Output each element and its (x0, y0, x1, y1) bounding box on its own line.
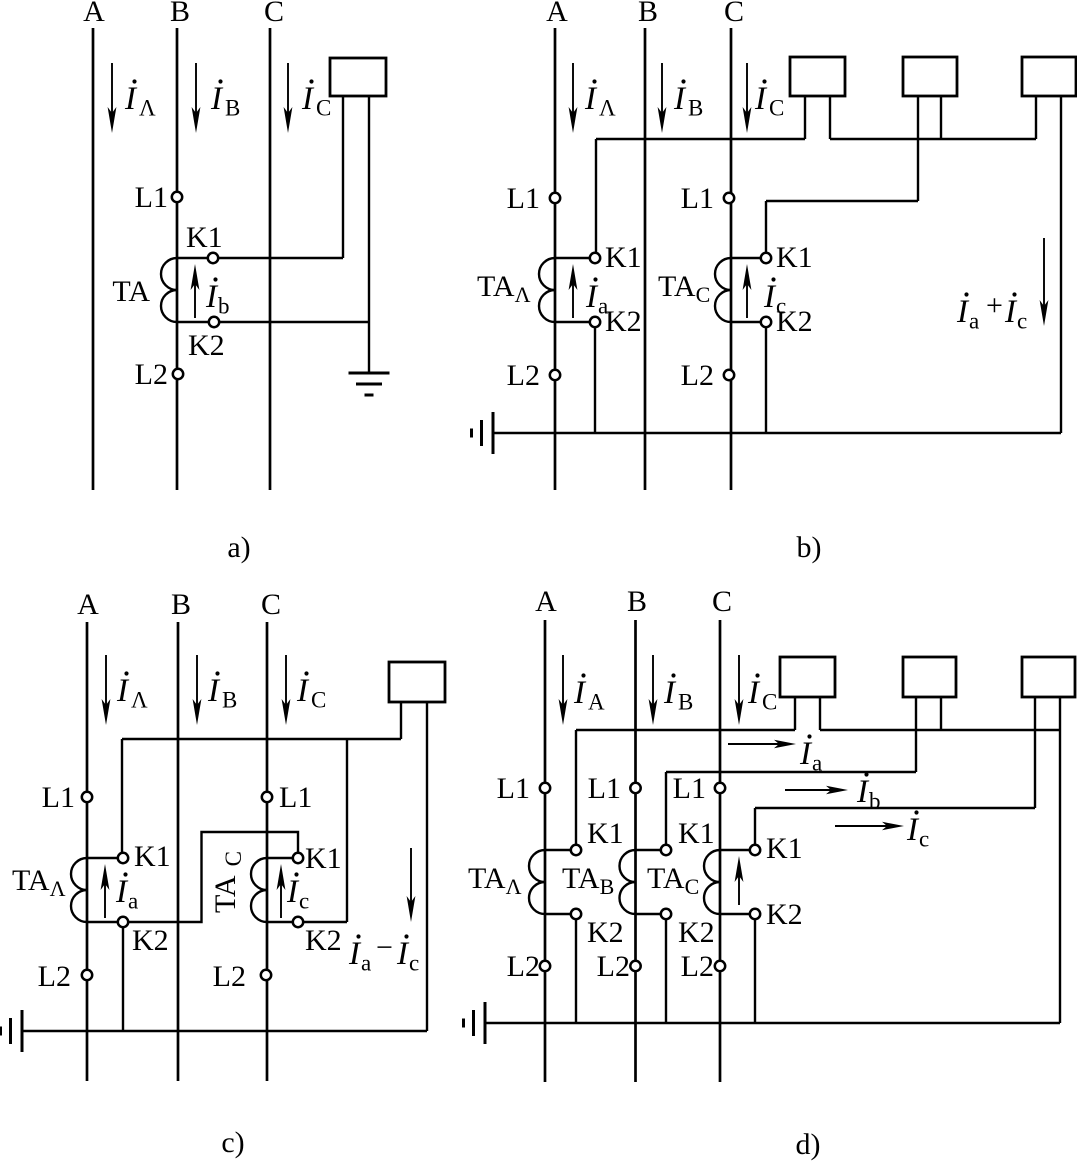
terminal K1A (b) (590, 253, 600, 263)
wire box1 left leg (d) (794, 697, 796, 730)
wire K2 to box right leg (a) (219, 321, 370, 323)
transformer TA_C winding (c) (251, 858, 267, 922)
terminal K1C (b) (761, 253, 771, 263)
svg-text:I: I (584, 81, 598, 117)
terminal K2A (b) (590, 317, 600, 327)
terminal K2C (b) (761, 317, 771, 327)
tick K2A (c) (87, 921, 119, 923)
svg-text:I: I (205, 279, 219, 315)
wire box3 right leg down to bus (b) (1060, 96, 1062, 433)
svg-text:Λ: Λ (131, 688, 148, 713)
svg-text:A: A (83, 0, 105, 28)
ground (b) (492, 412, 495, 454)
transformer TA_A winding (b) (539, 258, 555, 322)
terminal L2A (b) (550, 370, 560, 380)
branch arrow Ic (d) (835, 825, 899, 827)
svg-text:I: I (573, 675, 587, 711)
svg-text:L1: L1 (588, 772, 621, 805)
svg-text:K1: K1 (134, 840, 171, 873)
phase line C (c) (266, 622, 269, 1081)
secondary arrow Ic (c) (280, 870, 282, 918)
current arrow IA (a) (111, 63, 113, 127)
wire box3 right leg to bus (d) (1059, 697, 1061, 1023)
terminal L2C (b) (724, 370, 734, 380)
svg-text:I: I (116, 673, 130, 709)
terminal K1C (d) (750, 845, 760, 855)
terminal L2A (c) (82, 970, 92, 980)
svg-text:L1: L1 (673, 772, 706, 805)
ground (c) (21, 1010, 24, 1052)
terminal L1B (d) (630, 783, 640, 793)
svg-text:B: B (638, 0, 658, 28)
secondary arrow Ic (b) (746, 270, 748, 318)
svg-text:K1: K1 (605, 241, 642, 274)
terminal K1A (d) (571, 845, 581, 855)
tick K1B (d) (636, 849, 662, 851)
wire Ib horizontal (d) (666, 771, 916, 773)
wire K2C riser to bus (d) (754, 919, 756, 1024)
svg-text:L2: L2 (681, 359, 714, 392)
svg-text:L2: L2 (507, 950, 540, 983)
svg-text:K2: K2 (678, 916, 715, 949)
terminal L1A (d) (540, 783, 550, 793)
relay box 1 (b) (790, 57, 845, 96)
svg-text:C: C (261, 588, 281, 621)
secondary arrow Ia (b) (572, 270, 574, 318)
svg-text:C: C (762, 690, 777, 715)
wire K2A to ground bus (c) (122, 927, 124, 1032)
svg-text:A: A (77, 588, 99, 621)
current arrow IA (c) (105, 655, 107, 719)
transformer TA_C winding (b) (715, 258, 731, 322)
tick K2A (d) (545, 913, 572, 915)
phase line A (d) (544, 620, 547, 1082)
svg-text:Λ: Λ (139, 96, 156, 121)
svg-text:L2: L2 (507, 359, 540, 392)
svg-text:c: c (299, 889, 309, 914)
svg-text:K2: K2 (605, 305, 642, 338)
svg-text:A: A (588, 690, 605, 715)
wire horizontal K1A net (c) (122, 738, 401, 740)
current arrow IC (a) (287, 63, 289, 127)
svg-text:I: I (124, 81, 138, 117)
relay box 2 (d) (903, 657, 956, 697)
terminal K2B (d) (661, 909, 671, 919)
wire Ic horizontal (d) (755, 807, 1035, 809)
ground bus (c) (22, 1030, 427, 1032)
svg-text:c: c (776, 294, 786, 319)
svg-text:K1: K1 (766, 832, 803, 865)
wire box right leg down to bus (c) (426, 702, 428, 1031)
terminal L2A (d) (540, 961, 550, 971)
wire K2C riser to bus (b) (765, 327, 767, 434)
wire box2 left leg (b) (917, 96, 919, 201)
transformer TA_B winding (d) (620, 850, 636, 914)
phase line C (d) (719, 620, 722, 1082)
svg-text:I: I (585, 279, 599, 315)
tick K2C (b) (731, 321, 762, 323)
tick K1C (b) (731, 257, 762, 259)
svg-text:K2: K2 (132, 924, 169, 957)
svg-text:a: a (598, 294, 608, 319)
wire K1 to box (a) (218, 257, 344, 259)
svg-text:C: C (769, 96, 784, 121)
svg-text:B: B (171, 588, 191, 621)
terminal K2 (a) (209, 317, 219, 327)
terminal K1C (c) (293, 853, 303, 863)
terminal L1C (b) (724, 193, 734, 203)
svg-text:I: I (210, 81, 224, 117)
svg-text:C: C (316, 96, 331, 121)
current arrow IB (a) (195, 63, 197, 127)
wire K2A riser to bus (d) (575, 919, 577, 1024)
tick K2B (d) (636, 913, 662, 915)
transformer TA_C winding (d) (704, 850, 720, 914)
svg-text:a: a (361, 951, 371, 976)
branch arrow Ib (d) (785, 789, 843, 791)
wire box3 left leg (b) (1035, 96, 1037, 139)
secondary arrow Ia (c) (104, 870, 106, 918)
tick K1A (c) (87, 857, 119, 859)
current arrow IA (d) (562, 655, 564, 719)
svg-text:I: I (763, 279, 777, 315)
svg-text:B: B (225, 96, 240, 121)
tick K1C (c) (267, 857, 294, 859)
svg-text:I: I (747, 675, 761, 711)
svg-text:B: B (688, 96, 703, 121)
svg-text:I: I (296, 673, 310, 709)
phase line A (a) (92, 28, 95, 490)
wire Ic horizontal to box2 (b) (766, 200, 918, 202)
wire box1 left leg (b) (804, 96, 806, 139)
terminal L2 (a) (173, 369, 183, 379)
svg-text:L1: L1 (507, 182, 540, 215)
ground bus (d) (485, 1022, 1060, 1024)
wire return box1 to box3 (b) (830, 138, 1036, 140)
svg-text:I: I (348, 936, 362, 972)
svg-text:I: I (673, 81, 687, 117)
phase line B (d) (634, 620, 637, 1082)
svg-text:TA: TA (112, 275, 150, 308)
tick K1A (d) (545, 849, 572, 851)
svg-text:d): d) (796, 1128, 821, 1161)
phase line B (a) (176, 28, 179, 490)
svg-text:I: I (799, 736, 813, 772)
svg-text:a: a (812, 751, 822, 776)
wire drop to K2C net (c) (346, 739, 348, 922)
svg-text:B: B (678, 690, 693, 715)
svg-text:I: I (286, 874, 300, 910)
secondary arrow (d) (738, 862, 740, 905)
svg-text:I: I (754, 81, 768, 117)
wire box3 left leg (d) (1034, 697, 1036, 808)
svg-text:−: − (376, 931, 393, 964)
terminal L2B (d) (630, 961, 640, 971)
wire Ic: K1C riser (b) (765, 201, 767, 254)
wire box right leg down to ground (a) (368, 96, 370, 373)
terminal L2C (d) (715, 961, 725, 971)
terminal L1C (c) (262, 792, 272, 802)
current arrow IB (b) (661, 63, 663, 127)
wire box2 left leg (d) (915, 697, 917, 772)
svg-text:L1: L1 (497, 772, 530, 805)
sum current arrow Ia+Ic (b) (1043, 238, 1045, 320)
current arrow IA (b) (572, 63, 574, 127)
tick K2 (a) (177, 321, 210, 323)
wire K2A to K1C jog (c) (128, 832, 299, 922)
svg-text:a: a (969, 309, 979, 334)
tick K2C (d) (720, 913, 751, 915)
wire Ia horizontal (d) (576, 729, 795, 731)
svg-text:L2: L2 (597, 950, 630, 983)
svg-text:B: B (170, 0, 190, 28)
svg-text:c: c (1017, 309, 1027, 334)
svg-text:K2: K2 (766, 898, 803, 931)
wire box1 right leg (b) (829, 96, 831, 139)
svg-text:a: a (128, 889, 138, 914)
wire box left leg (c) (400, 702, 402, 739)
current arrow IC (b) (746, 63, 748, 127)
svg-text:B: B (222, 688, 237, 713)
phase line C (b) (730, 28, 733, 490)
svg-text:c: c (919, 827, 929, 852)
svg-text:K2: K2 (587, 916, 624, 949)
svg-text:I: I (856, 774, 870, 810)
relay box 3 (b) (1022, 57, 1076, 96)
svg-text:L2: L2 (681, 950, 714, 983)
wire K2C to drop (c) (303, 921, 348, 923)
relay box (c) (389, 662, 445, 702)
current arrow IB (c) (196, 655, 198, 719)
svg-text:C: C (724, 0, 744, 28)
ground (d) (484, 1002, 487, 1044)
svg-text:I: I (956, 294, 970, 330)
secondary current arrow Ib (a) (194, 270, 196, 318)
svg-text:L1: L1 (42, 781, 75, 814)
svg-text:K1: K1 (776, 241, 813, 274)
svg-text:K1: K1 (305, 842, 342, 875)
svg-text:a): a) (227, 531, 250, 564)
svg-text:I: I (906, 812, 920, 848)
svg-text:c: c (409, 951, 419, 976)
current arrow IC (c) (285, 655, 287, 719)
ground (a) (349, 372, 390, 375)
relay box 1 (d) (780, 657, 835, 697)
relay box 2 (b) (903, 57, 957, 96)
current arrow IB (d) (652, 655, 654, 719)
phase line C (a) (269, 28, 272, 490)
transformer TA_A winding (c) (71, 858, 87, 922)
terminal K1B (d) (661, 845, 671, 855)
wire K2B riser to bus (d) (665, 919, 667, 1024)
terminal K1A (c) (118, 853, 128, 863)
svg-text:b: b (869, 789, 881, 814)
svg-text:I: I (1004, 294, 1018, 330)
wire box2 right leg (b) (940, 96, 942, 139)
terminal L1A (c) (82, 792, 92, 802)
ground bus (b) (493, 432, 1061, 434)
wire Ia: K1A riser (d) (575, 730, 577, 846)
tick K2C (c) (267, 921, 294, 923)
wire box left leg to K1 wire (a) (342, 96, 344, 258)
svg-text:L2: L2 (38, 960, 71, 993)
transformer TA_A winding (d) (529, 850, 545, 914)
wire drop to K1A (c) (121, 739, 123, 853)
tick K1C (d) (720, 849, 751, 851)
phase line A (b) (554, 28, 557, 490)
phase line B (b) (644, 28, 647, 490)
difference current arrow Ia-Ic (c) (410, 848, 412, 916)
svg-text:K2: K2 (188, 329, 225, 362)
terminal K2C (d) (750, 909, 760, 919)
label TA_C rotated (c) (209, 851, 246, 913)
svg-text:L2: L2 (213, 960, 246, 993)
svg-text:A: A (546, 0, 568, 28)
wire Ia: K1A riser (b) (595, 139, 597, 254)
svg-text:+: + (986, 289, 1003, 322)
wire Ia horizontal to box1 (b) (596, 138, 805, 140)
branch arrow Ia (d) (728, 743, 791, 745)
svg-text:b): b) (797, 531, 822, 564)
relay box 3 (d) (1022, 657, 1075, 697)
tick K1 (a) (177, 257, 209, 259)
svg-text:C: C (311, 688, 326, 713)
svg-text:I: I (396, 936, 410, 972)
svg-text:A: A (535, 585, 557, 618)
terminal L1 (a) (172, 192, 182, 202)
wire K2A riser to bus (b) (594, 327, 596, 434)
phase line B (c) (177, 622, 180, 1081)
svg-text:c): c) (221, 1126, 244, 1159)
svg-text:C: C (264, 0, 284, 28)
wire Ic: K1C riser (d) (754, 808, 756, 846)
svg-text:b: b (218, 294, 230, 319)
wire return box1-box3 (d) (820, 729, 1060, 731)
wire box2 right leg (d) (940, 697, 942, 730)
svg-text:C: C (712, 585, 732, 618)
terminal L1C (d) (715, 783, 725, 793)
svg-text:L1: L1 (135, 181, 168, 214)
svg-text:B: B (627, 585, 647, 618)
terminal K1 (a) (208, 253, 218, 263)
tick K2A (b) (555, 321, 591, 323)
current arrow IC (d) (738, 655, 740, 719)
svg-text:I: I (115, 874, 129, 910)
svg-text:I: I (663, 675, 677, 711)
wire box1 right leg (d) (819, 697, 821, 730)
svg-text:K1: K1 (587, 817, 624, 850)
svg-text:K1: K1 (186, 221, 223, 254)
transformer TA winding (a) (161, 258, 177, 322)
svg-text:Λ: Λ (599, 96, 616, 121)
svg-text:L1: L1 (279, 781, 312, 814)
svg-text:I: I (301, 81, 315, 117)
svg-text:L1: L1 (681, 182, 714, 215)
terminal K2C (c) (293, 917, 303, 927)
svg-text:I: I (207, 673, 221, 709)
terminal K2A (c) (118, 917, 128, 927)
svg-text:K2: K2 (305, 924, 342, 957)
tick K1A (b) (555, 257, 591, 259)
phase line A (c) (86, 622, 89, 1081)
terminal L2C (c) (261, 970, 271, 980)
wire Ib: K1B riser (d) (665, 772, 667, 846)
terminal K2A (d) (571, 909, 581, 919)
svg-text:L2: L2 (135, 358, 168, 391)
svg-text:K1: K1 (678, 817, 715, 850)
relay box (a) (330, 58, 386, 96)
terminal L1A (b) (550, 193, 560, 203)
